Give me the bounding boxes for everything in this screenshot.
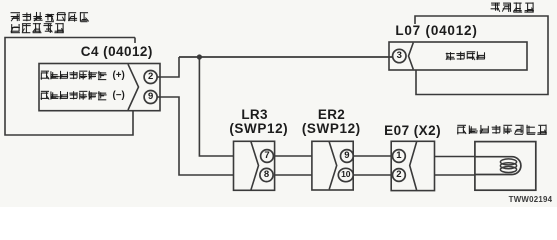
connector LR3 box — [234, 141, 275, 190]
pin number 8 of LR3 — [259, 169, 275, 180]
connector E07 box — [391, 141, 434, 190]
wire LR3 pin7 to ER2 pin9 — [275, 155, 312, 157]
connector L07 inner box — [389, 42, 527, 70]
wire E07 pin2 to sensor — [435, 174, 475, 176]
signal label: engine speed signal (发动机速度信号) row 2 — [41, 91, 107, 100]
drawing number TWW02194 — [451, 196, 557, 204]
polarity mark (+) of row 1 — [113, 71, 125, 81]
wire from bus junction down to LR3 pin 7 — [199, 57, 233, 156]
pin 2 of E07 — [393, 169, 406, 182]
node label: transmission and joystick steering controller (变速箱和操纵杆 / 转向控制器) — [10, 12, 88, 33]
monitor box L07 outer enclosure — [415, 16, 548, 95]
connector E07 chevron — [410, 142, 417, 190]
reference label SWP12 of ER2 — [251, 122, 411, 136]
pin number 3 of L07 — [391, 50, 407, 61]
pin number 1 of E07 — [391, 150, 407, 161]
pin 9 of C4 — [144, 91, 157, 104]
pin number 9 of C4 — [143, 91, 159, 102]
wire from C4 pin 9 down to LR3 pin 8 — [157, 97, 233, 175]
pin 7 of LR3 — [261, 150, 274, 163]
inductor coil of speed sensor — [475, 157, 521, 175]
reference label L07 (04012) — [357, 24, 517, 38]
connector L07 chevron — [409, 43, 414, 70]
reference label LR3 — [175, 108, 335, 122]
pin number 2 of C4 — [143, 71, 159, 82]
controller box C4 outer enclosure — [5, 38, 135, 136]
pin number 2 of E07 — [391, 169, 407, 180]
pin number 7 of LR3 — [259, 150, 275, 161]
pin 1 of E07 — [393, 150, 406, 163]
pin number 9 of ER2 — [339, 150, 355, 161]
connector C4 inner box — [39, 64, 160, 111]
connector ER2 box — [312, 141, 353, 190]
pin 8 of LR3 — [260, 168, 273, 181]
connector ER2 chevron — [329, 142, 337, 190]
pin 9 of ER2 — [341, 150, 354, 163]
connector C4 chevron — [128, 64, 139, 110]
wire bus from C4 pin 2 to L07 pin 3 — [179, 56, 393, 58]
node label: engine speed sensor (发动机速度传感器) — [457, 125, 547, 135]
node label: main monitor (主监控器) — [491, 2, 534, 12]
reference label ER2 — [252, 108, 412, 122]
pin 2 of C4 — [144, 71, 157, 84]
reference label E07 (X2) — [333, 124, 493, 138]
pin 10 of ER2 — [338, 168, 353, 181]
polarity mark (-) of row 2 — [113, 91, 125, 101]
wire ER2 pin9 to E07 pin1 — [353, 155, 391, 157]
reference label SWP12 of LR3 — [179, 122, 339, 136]
label: speed measuring motor (测速电机) — [446, 51, 485, 60]
connector LR3 chevron — [251, 142, 259, 190]
reference label C4 (04012) — [37, 45, 197, 59]
wire from C4 pin 2 up to bus — [157, 57, 179, 77]
pin 3 of L07 — [393, 49, 406, 62]
signal label: engine speed signal (发动机速度信号) row 1 — [41, 71, 107, 80]
junction node on bus — [197, 54, 202, 59]
pin number 10 of ER2 — [338, 169, 354, 180]
wire E07 pin1 to sensor — [435, 156, 475, 158]
sensor box (engine speed sensor) — [475, 142, 536, 191]
wire ER2 pin10 to E07 pin2 — [353, 174, 391, 176]
wire LR3 pin8 to ER2 pin10 — [275, 174, 312, 176]
